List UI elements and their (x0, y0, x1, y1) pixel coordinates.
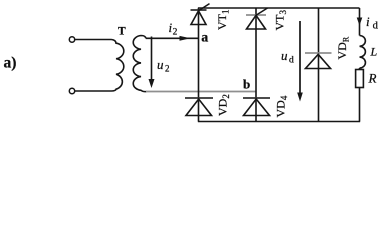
svg-text:VT3: VT3 (273, 10, 289, 31)
left bridge branch wire (198, 8, 200, 122)
svg-text:a: a (201, 30, 208, 45)
wire i2 : secondary top to node a (146, 37, 199, 39)
diode VD2 (185, 98, 213, 116)
output voltage arrow ud (297, 21, 303, 102)
freewheeling diode VDR (305, 53, 332, 69)
freewheeling branch wire (318, 8, 320, 122)
load branch wire (359, 8, 361, 36)
wire primary bottom (75, 90, 112, 92)
svg-text:VDR: VDR (335, 36, 351, 59)
wire secondary bottom to node b (gray) (146, 91, 256, 93)
svg-text:T: T (118, 26, 126, 38)
transformer secondary winding (133, 36, 146, 92)
top bus wire (198, 7, 360, 9)
svg-text:ud: ud (281, 48, 294, 66)
svg-text:VD4: VD4 (274, 95, 290, 117)
svg-text:VT1: VT1 (215, 10, 231, 31)
svg-text:L: L (370, 45, 378, 59)
svg-text:b: b (243, 77, 250, 92)
svg-text:i2: i2 (169, 20, 178, 38)
wire resistor to bottom bus (359, 88, 361, 122)
resistor R (356, 70, 364, 88)
svg-text:id: id (366, 14, 379, 32)
svg-text:R: R (368, 71, 377, 86)
transformer primary winding (112, 40, 124, 92)
diode VD4 (243, 98, 270, 116)
svg-text:VD2: VD2 (216, 94, 232, 116)
svg-text:u2: u2 (157, 57, 170, 74)
right bridge branch wire (255, 8, 257, 122)
secondary voltage arrow u2 (149, 37, 155, 89)
terminal circle top (69, 37, 74, 42)
svg-text:a): a) (4, 55, 17, 72)
current arrowhead id (357, 18, 363, 26)
wire primary top (75, 39, 112, 41)
wire inductor to resistor (359, 68, 361, 70)
bottom bus wire (198, 121, 360, 123)
terminal circle bottom (69, 88, 74, 93)
inductor L (360, 36, 366, 69)
thyristor VT3 (246, 8, 268, 29)
thyristor VT1 (191, 4, 210, 25)
current arrowhead i2 (180, 36, 191, 41)
